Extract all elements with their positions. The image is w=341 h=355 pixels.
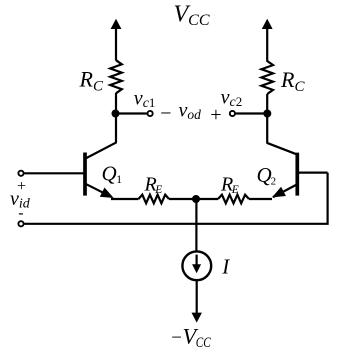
svg-text:vc2: vc2 [221,87,243,111]
svg-text:−: − [159,103,173,125]
svg-text:VCC: VCC [183,324,212,351]
svg-text:Q2: Q2 [257,163,277,188]
svg-text:-: - [18,205,23,222]
svg-text:RE: RE [220,174,239,196]
svg-text:+: + [209,104,223,126]
svg-text:VCC: VCC [174,2,210,30]
svg-text:RE: RE [144,174,163,196]
svg-text:RC: RC [79,67,104,95]
svg-text:vod: vod [179,100,202,123]
svg-text:Q1: Q1 [102,161,123,186]
svg-text:I: I [221,254,230,278]
svg-text:RC: RC [280,67,305,95]
svg-text:vc1: vc1 [134,88,156,112]
svg-text:−: − [170,328,183,349]
svg-text:+: + [16,178,27,195]
